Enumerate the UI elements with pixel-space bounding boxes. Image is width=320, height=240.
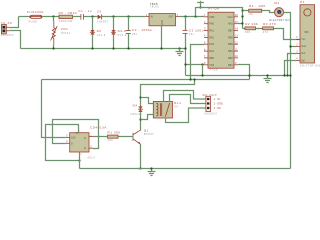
U1 left pin names xyxy=(209,16,214,67)
node junction gnd symbol xyxy=(266,74,268,76)
wire CD4013 pin to R1 xyxy=(93,136,108,138)
wire 7805 gnd down xyxy=(161,26,163,49)
wire bottom rail xyxy=(80,168,291,170)
ground symbol on bus A xyxy=(264,76,272,83)
svg-text:20K: 20K xyxy=(245,30,251,34)
CD4013 pin numbers xyxy=(66,132,92,157)
svg-text:16v: 16v xyxy=(189,32,195,36)
svg-text:ATQ8: ATQ8 xyxy=(210,68,218,72)
resistor R2 20K xyxy=(245,22,259,34)
svg-text:1 - 5V: 1 - 5V xyxy=(214,98,221,101)
svg-text:C2 - 1000u: C2 - 1000u xyxy=(132,28,152,32)
wire R2 to R3 xyxy=(256,28,263,30)
wire 7805 out to IC pin1 xyxy=(179,16,204,18)
resistor R1 390 xyxy=(107,130,120,142)
node junction D4Z top xyxy=(112,15,114,17)
wire coil top bend to relay xyxy=(141,98,154,104)
svg-text:RA3: RA3 xyxy=(209,43,214,46)
svg-text:Q: Q xyxy=(84,137,86,140)
wire base R1 to Q1 xyxy=(118,136,133,138)
svg-text:AK500/3: AK500/3 xyxy=(204,112,217,116)
node junction C2 top xyxy=(127,15,129,17)
wire D1 to 7805 xyxy=(102,16,146,18)
svg-text:R4 - 1M0: R4 - 1M0 xyxy=(249,4,266,8)
svg-text:AT-Q8: AT-Q8 xyxy=(208,7,219,11)
wire C2 to rails xyxy=(128,17,130,31)
regulator U2 7805 xyxy=(145,2,179,26)
CD4013 pin stubs xyxy=(66,129,93,156)
node junction D2 bottom xyxy=(91,47,93,49)
ground symbol near 7805 xyxy=(178,47,180,49)
svg-text:Out: Out xyxy=(301,52,305,55)
wire R3 right to P1 pin1 xyxy=(274,29,301,40)
node junction C3 top xyxy=(184,15,186,17)
resistor R4 1M0 xyxy=(249,4,266,16)
resistor R6 0R33 xyxy=(59,11,78,23)
wire relay contact NC to DC OUT pin3 xyxy=(166,108,206,123)
node junction D2 top xyxy=(91,15,93,17)
wire R4 right to mic xyxy=(262,11,275,13)
svg-text:GND: GND xyxy=(161,20,164,26)
svg-text:AN1: AN1 xyxy=(228,23,233,26)
svg-text:D1: D1 xyxy=(97,9,102,13)
svg-text:7D431: 7D431 xyxy=(61,31,71,35)
wire U1 pin8 VSS to gnd bus xyxy=(186,64,205,66)
module P1 xyxy=(300,0,320,67)
svg-text:FUSE: FUSE xyxy=(29,19,38,23)
wire D4-Z to rails xyxy=(113,17,115,31)
node junction VR1 top xyxy=(52,15,54,17)
microcontroller U1 xyxy=(208,7,234,72)
wire fuse to R6 xyxy=(42,16,59,18)
svg-text:RB1: RB1 xyxy=(228,64,233,67)
wire U1 pin15 to R2 xyxy=(238,23,243,25)
svg-text:RB2: RB2 xyxy=(228,57,233,60)
svg-text:RB6: RB6 xyxy=(228,36,233,39)
P1 pin numbers xyxy=(296,36,298,60)
wire P1 pin3 down to gnd bus xyxy=(288,54,297,76)
connector X2 DC OUT xyxy=(203,93,223,116)
ground symbol bottom rail xyxy=(148,169,156,176)
svg-text:RA4: RA4 xyxy=(209,50,214,53)
wire CD4013 Qbar feedback loop xyxy=(53,120,99,149)
node junction 7805 gnd at rail xyxy=(160,47,162,49)
svg-text:BC547: BC547 xyxy=(144,132,154,136)
svg-text:390: 390 xyxy=(107,138,113,142)
svg-text:4013: 4013 xyxy=(87,156,95,160)
svg-text:1N4007: 1N4007 xyxy=(97,19,109,23)
svg-text:FUSAVRL: FUSAVRL xyxy=(27,10,44,14)
wire CD4013 vss down to rail xyxy=(79,156,81,169)
zener diode D4-Z xyxy=(111,29,127,37)
node junction emitter at rail xyxy=(139,167,141,169)
node junction pin3 at bus xyxy=(286,74,288,76)
svg-text:RB7: RB7 xyxy=(228,30,233,33)
node junction pin8 dot xyxy=(201,63,203,65)
svg-text:VR1: VR1 xyxy=(61,27,69,31)
svg-text:5V6-Z: 5V6-Z xyxy=(118,33,127,37)
svg-text:2 - GND: 2 - GND xyxy=(214,103,223,106)
svg-text:RA0: RA0 xyxy=(209,23,214,26)
wire top rail xyxy=(19,16,31,18)
wire CD4013 feedback loop top xyxy=(46,125,80,161)
diode D1 1N4007 xyxy=(97,9,109,23)
wire D2 to rails xyxy=(92,17,94,31)
svg-text:VDD: VDD xyxy=(209,16,214,19)
svg-text:78L05: 78L05 xyxy=(150,4,160,8)
svg-text:Q: Q xyxy=(84,147,86,150)
node junction pin2 xyxy=(289,45,291,47)
capacitor C3 100u xyxy=(183,28,205,35)
U1 left pin stubs xyxy=(204,17,208,65)
svg-text:27K: 27K xyxy=(263,30,269,34)
wire bottom rail xyxy=(21,48,186,50)
node junction C2 bottom xyxy=(127,47,129,49)
svg-text:R6 - 0R33: R6 - 0R33 xyxy=(59,11,78,15)
diode D4 flyback xyxy=(130,103,143,116)
varistor VR1 xyxy=(51,21,71,45)
node junction coil top xyxy=(139,96,141,98)
svg-text:1M: 1M xyxy=(249,12,254,16)
node junction gnd bus at right column xyxy=(289,74,291,76)
svg-text:D4-Z: D4-Z xyxy=(118,29,127,33)
node junction relay feed at bus B xyxy=(193,78,195,80)
node junction pin8 drop at bus A xyxy=(201,74,203,76)
wire ground bus A xyxy=(186,75,291,77)
node junction pin5 wire at bus B xyxy=(189,78,191,80)
svg-text:R1 390: R1 390 xyxy=(108,130,121,134)
wire bus B xyxy=(42,79,250,81)
connector J1 IN_AC xyxy=(1,21,14,37)
svg-text:25v: 25v xyxy=(132,32,138,36)
capacitor C1 1u xyxy=(78,9,92,20)
transistor Q1 BC547 xyxy=(133,129,154,145)
svg-text:C3 100u: C3 100u xyxy=(189,28,204,32)
svg-text:Sel: Sel xyxy=(301,59,305,62)
svg-text:D: D xyxy=(71,142,73,145)
wire P1 pin4 down to gnd bus xyxy=(285,61,297,76)
svg-text:CLKI: CLKI xyxy=(227,16,233,19)
wire mic right to right column xyxy=(284,13,291,169)
capacitor C2 1000u xyxy=(126,28,153,36)
svg-text:RA1: RA1 xyxy=(209,30,214,33)
node junction +5V branch xyxy=(194,15,196,17)
wire pin8 second drop xyxy=(202,65,204,76)
node junction D4Z bottom xyxy=(112,47,114,49)
node junction VR1 bottom xyxy=(52,47,54,49)
P1 pin stubs xyxy=(296,40,300,61)
resistor R3 27K xyxy=(263,22,277,34)
svg-text:5V: 5V xyxy=(174,105,178,109)
svg-text:RB4: RB4 xyxy=(228,50,233,53)
node junction pin4 at bus xyxy=(283,74,285,76)
svg-text:C1 - 1u: C1 - 1u xyxy=(78,9,92,13)
wire C1 to D1 xyxy=(84,16,98,18)
svg-text:IN: IN xyxy=(150,15,153,18)
svg-text:1N4148: 1N4148 xyxy=(130,112,142,116)
wire relay contact NO to DC OUT pin2 xyxy=(170,95,206,104)
svg-text:RB5: RB5 xyxy=(228,43,233,46)
node junction loop at gnd drop xyxy=(78,159,80,161)
wire R4 left xyxy=(243,10,249,12)
P1 pin names xyxy=(301,38,306,62)
svg-text:RB0: RB0 xyxy=(209,57,214,60)
wire P1 pin2 to right column xyxy=(291,46,297,48)
node junction bottom gnd xyxy=(150,167,152,169)
svg-text:R2 20K: R2 20K xyxy=(245,22,258,26)
svg-text:R3 27K: R3 27K xyxy=(263,22,276,26)
fuse F1 FUSAVRL xyxy=(27,10,44,23)
U1 pin numbers xyxy=(204,14,238,65)
U1 right pin stubs xyxy=(234,17,238,65)
relay RL1 xyxy=(153,101,181,118)
svg-text:P1: P1 xyxy=(300,0,305,4)
wire IN_AC pin2 to bottom rail xyxy=(9,31,20,49)
wire VR1 to rails xyxy=(53,17,55,22)
microphone MIC1 electret xyxy=(270,1,291,22)
svg-text:CLK: CLK xyxy=(71,137,76,140)
wire IN_AC pin1 to top rail xyxy=(6,26,9,28)
wire C3 vertical / rail corner down to gnd bus xyxy=(185,17,187,31)
svg-text:D2: D2 xyxy=(97,29,102,33)
svg-text:3 - NO: 3 - NO xyxy=(214,107,221,110)
wire bus B down to CD4013 clk xyxy=(42,80,66,138)
wire relay feed down from bus B xyxy=(141,80,195,131)
node junction pin8 left at bus A xyxy=(248,74,250,76)
svg-text:MIC: MIC xyxy=(305,31,310,34)
wire relay contact common to DC OUT pin1 xyxy=(164,91,206,102)
wire U1 pin5 down to bus B xyxy=(191,45,205,80)
node junction R4 branch xyxy=(241,9,243,11)
U1 right pin names xyxy=(227,16,233,67)
svg-text:D4: D4 xyxy=(133,103,138,107)
zener diode D2 xyxy=(90,29,106,37)
wire Q1 emitter down to bottom rail xyxy=(140,144,142,168)
svg-text:OUT: OUT xyxy=(169,15,175,18)
svg-text:SN-0T1R-041: SN-0T1R-041 xyxy=(300,63,320,67)
svg-text:RL1: RL1 xyxy=(174,101,181,105)
wire R6 to C1 xyxy=(73,16,81,18)
svg-text:0R33/2W: 0R33/2W xyxy=(59,19,73,23)
svg-text:M1: M1 xyxy=(274,1,279,5)
wire U1 pin9 to bus B xyxy=(238,65,250,80)
wire coil bottom bend to relay xyxy=(141,115,154,120)
svg-text:RA2: RA2 xyxy=(209,36,214,39)
svg-text:12V-Z: 12V-Z xyxy=(97,33,106,37)
supply +5V arrow symbol xyxy=(197,1,204,9)
IC U3 CD4013 xyxy=(70,126,107,160)
svg-text:Q1: Q1 xyxy=(144,129,149,133)
node junction C3 bottom at rail xyxy=(184,47,186,49)
svg-text:AK500/2: AK500/2 xyxy=(1,33,14,37)
svg-text:Gnd: Gnd xyxy=(301,45,306,48)
wire +5V top link to right column xyxy=(196,8,243,29)
node junction coil bottom xyxy=(139,118,141,120)
svg-text:VSS: VSS xyxy=(209,64,214,67)
